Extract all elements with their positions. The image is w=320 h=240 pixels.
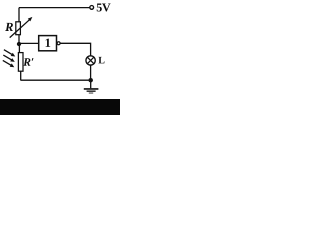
svg-text:L: L xyxy=(98,55,105,66)
svg-text:5V: 5V xyxy=(96,0,111,14)
svg-text:R: R xyxy=(4,20,13,34)
svg-text:1: 1 xyxy=(45,36,51,50)
svg-text:R′: R′ xyxy=(22,57,34,69)
